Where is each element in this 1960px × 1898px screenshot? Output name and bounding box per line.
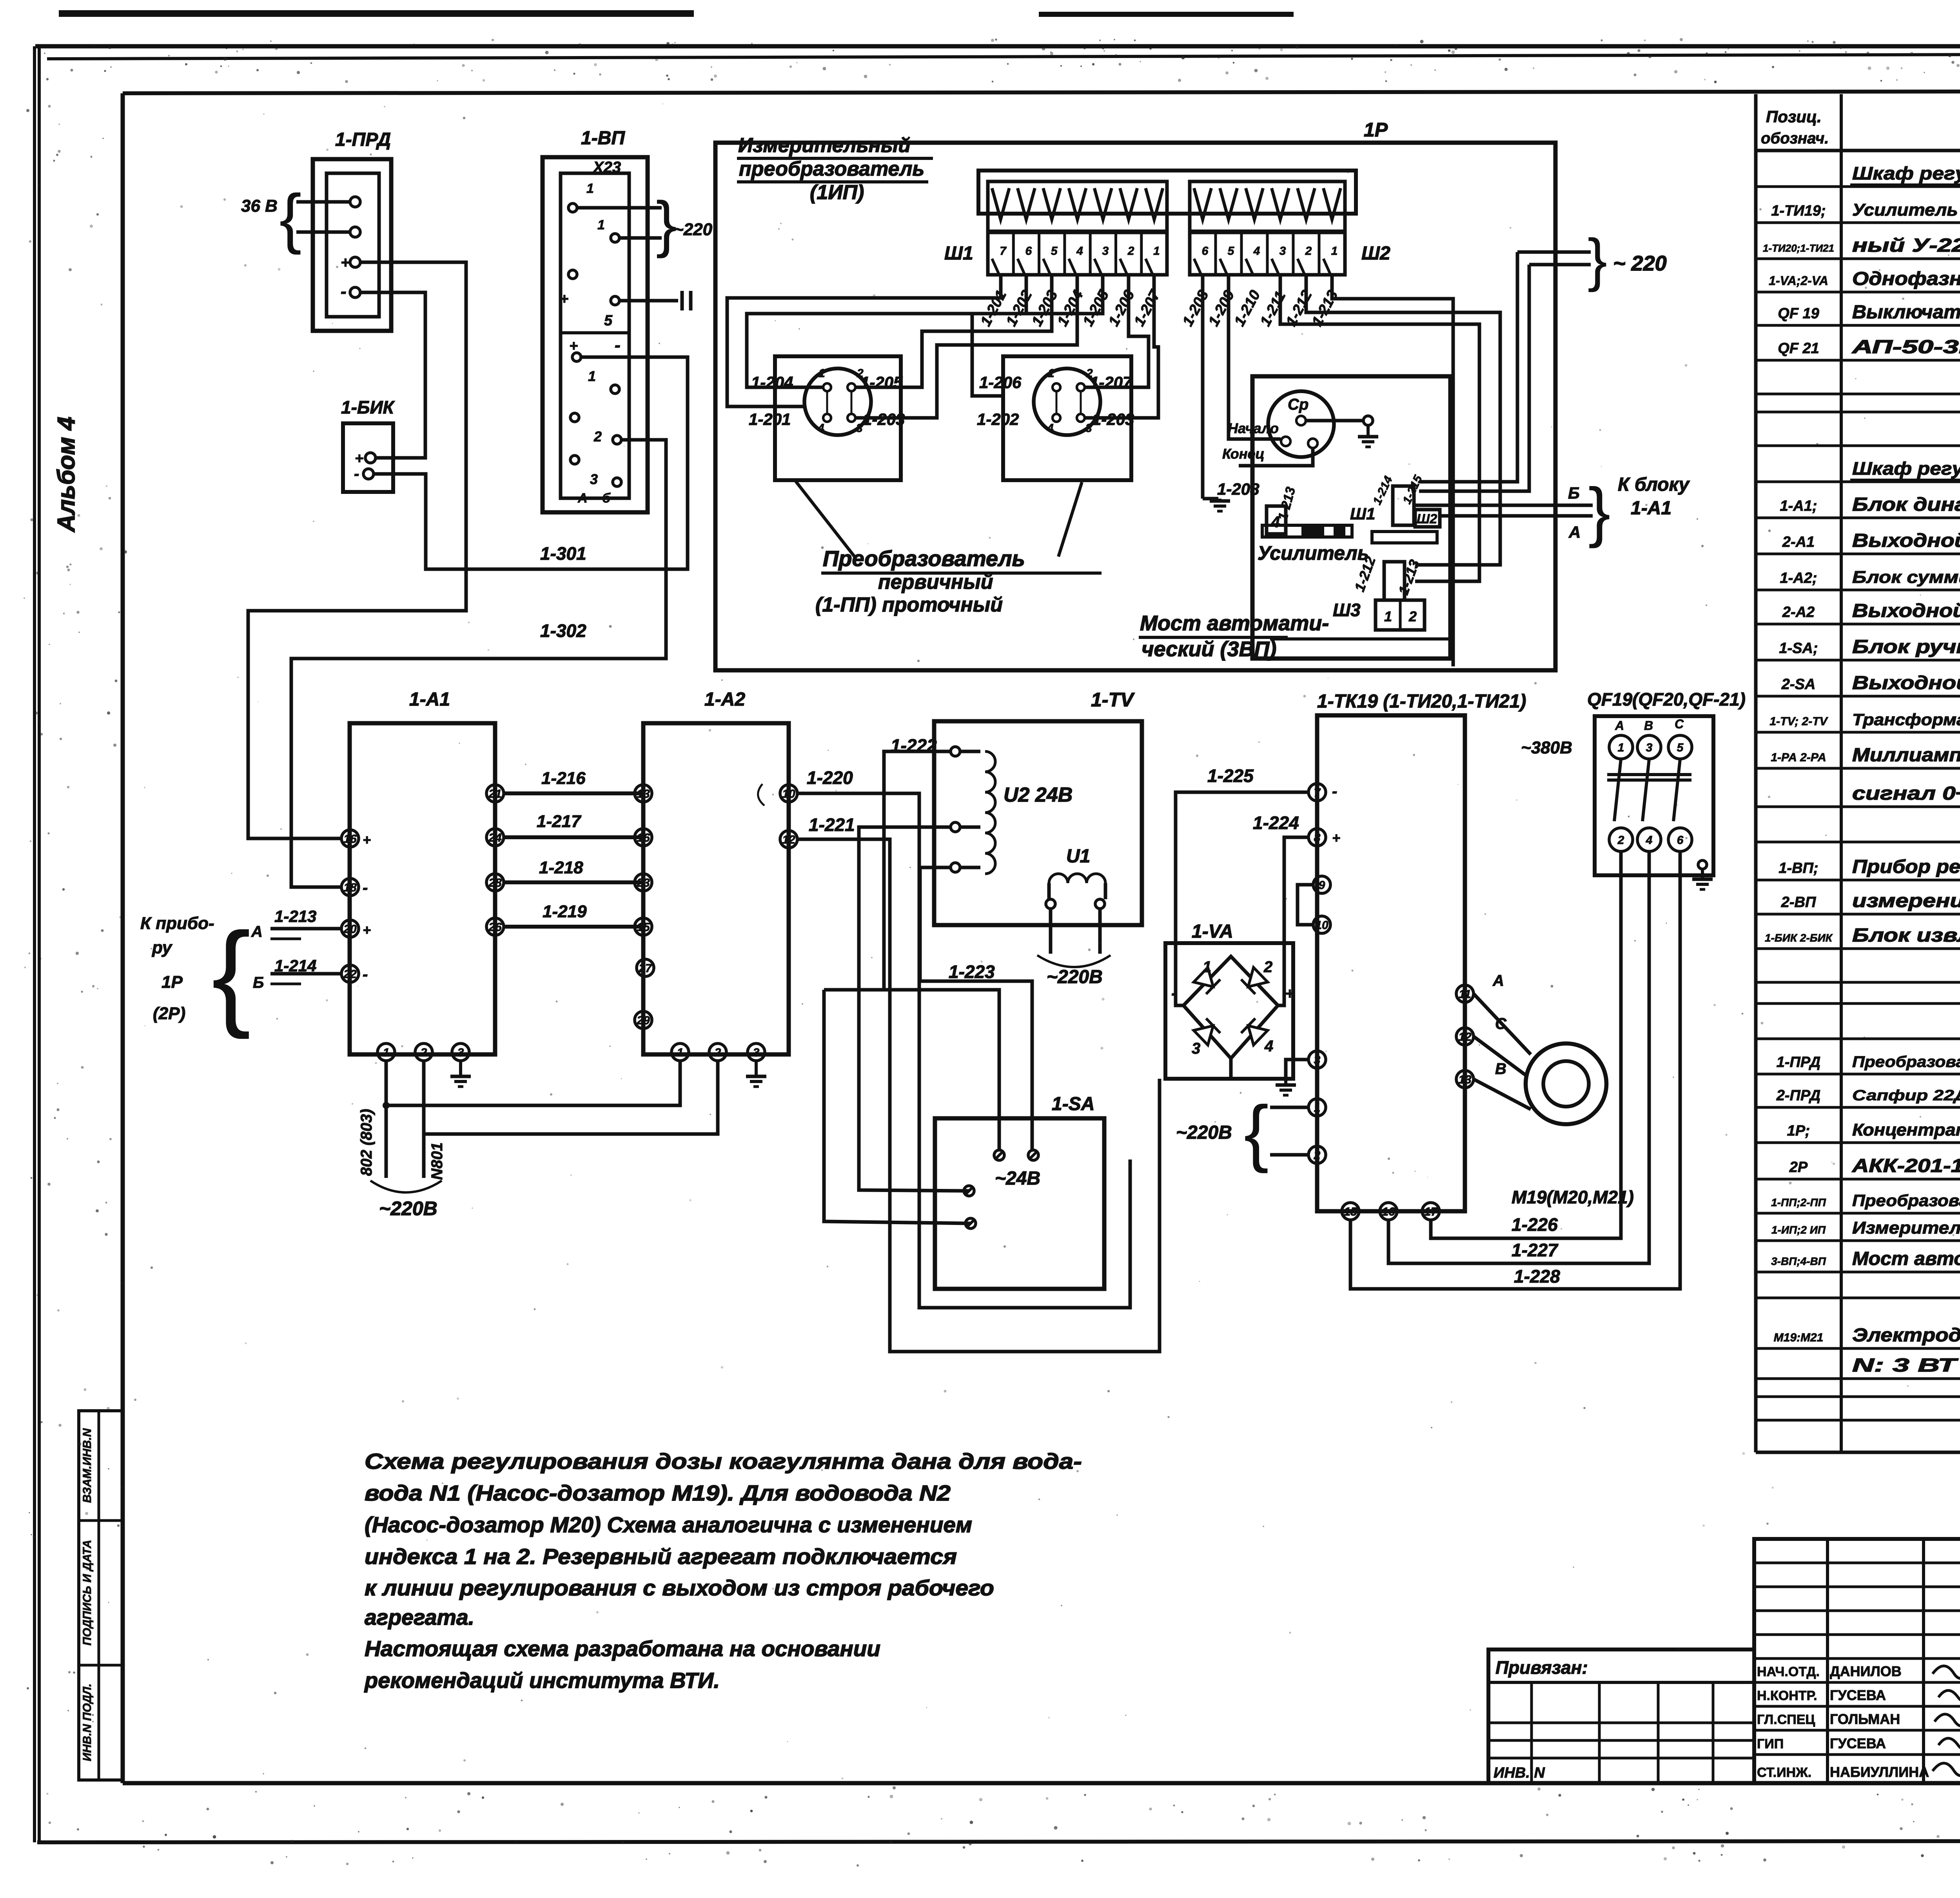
1-ТК19 terminal 3 <box>1308 1051 1326 1068</box>
amplifier box <box>1252 376 1450 659</box>
svg-text:6: 6 <box>1202 245 1209 258</box>
wire t3 to ground <box>1286 1060 1308 1081</box>
svg-text:1-А1;: 1-А1; <box>1780 498 1817 514</box>
svg-text:16: 16 <box>1382 1205 1395 1218</box>
svg-text:ВЗАМ.ИНВ.N: ВЗАМ.ИНВ.N <box>81 1428 94 1503</box>
svg-text:-: - <box>363 966 368 983</box>
svg-text:Сапфир 22ДД 2410-02-УХЛ*3.1-0,: Сапфир 22ДД 2410-02-УХЛ*3.1-0,25/0,25кПа… <box>1852 1087 1960 1104</box>
svg-text:А: А <box>577 491 588 506</box>
svg-text:С: С <box>1675 717 1684 731</box>
svg-text:Б: Б <box>253 974 264 991</box>
svg-text:1: 1 <box>597 218 605 232</box>
U2 tap 1 <box>951 747 960 756</box>
wire to motor B <box>1474 1079 1531 1109</box>
svg-text:первичный: первичный <box>878 571 993 593</box>
connector 2 pins <box>1053 383 1060 391</box>
svg-text:К прибо-: К прибо- <box>140 914 214 933</box>
block 1-ВП (recorder) <box>543 157 648 512</box>
block 1-VA (diode bridge) <box>1165 943 1293 1079</box>
svg-text:Ш1: Ш1 <box>944 243 973 264</box>
1-ВП pin g <box>570 413 579 422</box>
svg-text:Привязан:: Привязан: <box>1495 1657 1588 1678</box>
svg-text:29: 29 <box>636 1014 650 1027</box>
svg-text:1Р: 1Р <box>162 973 183 992</box>
svg-text:23: 23 <box>636 876 650 889</box>
svg-text:АКК-201-1 в комплекте.: АКК-201-1 в комплекте. <box>1852 1156 1960 1176</box>
svg-text:Блок извлечения корня БИК-1.: Блок извлечения корня БИК-1. <box>1852 925 1960 946</box>
block 1-TV (transformer) <box>934 721 1142 925</box>
svg-text:4: 4 <box>1047 422 1054 435</box>
1-ВП divider <box>561 331 629 334</box>
1-ТК19 terminal 1 <box>1308 1099 1326 1116</box>
1-А2 terminal 10 <box>780 785 797 802</box>
svg-text:1-ВП: 1-ВП <box>581 128 625 149</box>
svg-text:21: 21 <box>488 788 501 800</box>
wires Ш2 down right <box>1332 276 1453 666</box>
leader to amplifier box <box>1270 637 1450 641</box>
svg-text:индекса 1 на 2. Резервный агре: индекса 1 на 2. Резервный агрегат подклю… <box>365 1544 957 1569</box>
svg-text:QF 21: QF 21 <box>1778 340 1819 357</box>
table parts list grid <box>1754 94 1758 1452</box>
svg-text:16: 16 <box>637 831 650 844</box>
svg-text:Концентратомер кондуктометриче: Концентратомер кондуктометрический <box>1852 1120 1960 1140</box>
svg-text:1-ИП;2 ИП: 1-ИП;2 ИП <box>1771 1224 1826 1236</box>
svg-text:8: 8 <box>1314 831 1321 844</box>
svg-text:ческий (3ВП): ческий (3ВП) <box>1142 637 1276 661</box>
1-ПРД terminal - <box>350 287 360 298</box>
wires Б and А to 1-А1 <box>1413 504 1593 507</box>
svg-text:3-ВП;4-ВП: 3-ВП;4-ВП <box>1771 1255 1826 1267</box>
1-ТК19 terminal 13 <box>1456 1071 1474 1088</box>
1-ТК19 terminal 2 <box>1308 1146 1326 1163</box>
svg-text:1-227: 1-227 <box>1512 1240 1559 1260</box>
svg-text:Ср: Ср <box>1288 396 1308 413</box>
svg-text:1-216: 1-216 <box>541 769 586 788</box>
svg-text:Ш2: Ш2 <box>1361 243 1390 264</box>
U2 tap 3 <box>951 863 960 872</box>
bar under mini connectors <box>1372 532 1437 543</box>
svg-text:3: 3 <box>1314 1054 1321 1067</box>
svg-text:1-А1: 1-А1 <box>409 689 450 710</box>
svg-text:Блок суммирования и сигнализац: Блок суммирования и сигнализации БСС. <box>1852 568 1960 587</box>
svg-text:2: 2 <box>1617 834 1624 847</box>
block 1-БИК (root extraction) <box>343 423 393 492</box>
svg-text:1-ПРД: 1-ПРД <box>1777 1054 1820 1071</box>
1-SA terminal d <box>965 1218 976 1228</box>
1-ВП pin 1 with wire to ~220 <box>568 203 577 212</box>
svg-text:ГОЛЬМАН: ГОЛЬМАН <box>1830 1711 1900 1727</box>
svg-text:1-201: 1-201 <box>977 288 1010 329</box>
diode 3 <box>1194 1018 1220 1045</box>
svg-text:(1ИП): (1ИП) <box>810 181 864 204</box>
QF19 crossbar <box>1607 773 1691 776</box>
wire to 1-SA lower left <box>824 990 971 1223</box>
QF19 pole 1 <box>1609 735 1633 759</box>
svg-text:ный У-22М .: ный У-22М . <box>1852 235 1960 256</box>
1-ВП pin 1b wire to ~220 <box>611 234 619 242</box>
svg-text:{: { <box>279 181 302 255</box>
svg-text:(1-ПП) проточный: (1-ПП) проточный <box>815 593 1003 616</box>
block QF19 (circuit breaker) <box>1595 716 1713 875</box>
svg-text:16: 16 <box>343 833 357 846</box>
mini connector Ш2 <box>1415 510 1440 527</box>
svg-text:к линии регулирования с выходо: к линии регулирования с выходом из строя… <box>365 1575 994 1600</box>
svg-text:1-213: 1-213 <box>274 907 316 925</box>
svg-text:4: 4 <box>1253 245 1260 258</box>
svg-text:1-226: 1-226 <box>1512 1214 1558 1235</box>
svg-text:А: А <box>1568 523 1581 541</box>
svg-text:1-220: 1-220 <box>807 768 853 788</box>
1-А2 terminal 29 <box>635 1011 652 1029</box>
svg-text:Преобразователь измерительный: Преобразователь измерительный разности д… <box>1852 1053 1960 1071</box>
svg-text:1-ТV; 2-ТV: 1-ТV; 2-ТV <box>1769 715 1828 728</box>
svg-text:2: 2 <box>1314 1149 1321 1162</box>
block 1-А1 (dynamic link block) <box>350 723 495 1054</box>
svg-text:-: - <box>354 465 359 483</box>
wire N801 <box>422 1061 426 1178</box>
1-ПРД terminal 2 <box>350 227 360 237</box>
svg-text:802 (803): 802 (803) <box>358 1109 375 1176</box>
QF19 pole 3 <box>1637 735 1661 759</box>
diode 2 <box>1241 967 1268 994</box>
svg-text:2: 2 <box>1305 245 1312 258</box>
svg-text:2-А1: 2-А1 <box>1782 534 1815 550</box>
connector 1 circle <box>804 368 871 435</box>
block 1-SA (manual control) <box>935 1118 1104 1289</box>
svg-text:+: + <box>341 254 350 271</box>
svg-text:1-206: 1-206 <box>979 373 1022 392</box>
svg-text:3: 3 <box>856 422 863 435</box>
svg-text:3: 3 <box>1646 741 1653 754</box>
1-А2 bottom terminal 3 <box>748 1043 765 1061</box>
svg-text:2Р: 2Р <box>1789 1159 1808 1176</box>
signature squiggles <box>1933 1663 1960 1678</box>
svg-text:1: 1 <box>586 181 594 196</box>
1-А1 terminal 28 <box>486 874 504 891</box>
wire 1-ПРД+ to 1-А1 t16 <box>248 262 466 838</box>
svg-text:1-VA: 1-VA <box>1192 921 1233 942</box>
primary transducer connector 2 box <box>1003 356 1131 480</box>
svg-text:1-202: 1-202 <box>977 410 1019 428</box>
svg-text:2-SА: 2-SА <box>1781 676 1816 693</box>
svg-text:Альбом 4: Альбом 4 <box>53 417 80 533</box>
svg-text:1: 1 <box>1618 741 1624 754</box>
svg-text:2: 2 <box>593 428 602 445</box>
1-ПРД terminal + <box>350 257 360 267</box>
svg-text:1: 1 <box>1203 958 1211 976</box>
svg-text:1-207: 1-207 <box>1131 287 1164 329</box>
1-А2 terminal 23 <box>635 874 652 891</box>
svg-text:+: + <box>363 832 371 848</box>
1-ТК19 terminal 10 <box>1313 916 1330 933</box>
1-А1 terminal 22 <box>341 965 359 982</box>
svg-text:Выходной сигнал 0-5МА ~220В.: Выходной сигнал 0-5МА ~220В. <box>1852 601 1960 621</box>
svg-text:2: 2 <box>1127 245 1134 258</box>
svg-text:Мост автоматический: Мост автоматический <box>1852 1248 1960 1269</box>
svg-text:17: 17 <box>1424 1205 1438 1218</box>
svg-text:+: + <box>355 450 363 467</box>
svg-text:2: 2 <box>420 1046 427 1059</box>
1-ТК19 terminal 7 <box>1308 784 1326 801</box>
svg-text:QF 19: QF 19 <box>1778 305 1819 322</box>
1-А1 bottom terminal 3 <box>452 1043 469 1061</box>
wire 1-301 <box>374 357 688 569</box>
svg-text:1Р: 1Р <box>1364 119 1388 141</box>
1-SA terminal b <box>1028 1150 1038 1160</box>
svg-text:1: 1 <box>1314 1101 1321 1114</box>
1-ВП pin e (to wire 1-301) <box>572 353 581 361</box>
svg-text:ГЛ.СПЕЦ: ГЛ.СПЕЦ <box>1757 1712 1815 1727</box>
svg-text:В: В <box>1644 719 1653 733</box>
svg-text:Блок динамической связи БДС .: Блок динамической связи БДС . <box>1852 494 1960 515</box>
svg-text:С: С <box>1495 1015 1507 1032</box>
1-А2 terminal 27 <box>637 959 654 976</box>
svg-text:Выходной сигнал 0-5 МА. ~220В: Выходной сигнал 0-5 МА. ~220В <box>1852 530 1960 551</box>
svg-text:~380В: ~380В <box>1521 738 1572 757</box>
svg-text:1-БИК: 1-БИК <box>341 397 395 417</box>
1-БИК terminal + <box>365 453 376 463</box>
QF19 switch blades <box>1614 759 1621 821</box>
block 1-ПРД (pressure transducer) <box>313 159 391 331</box>
svg-text:Усилитель: Усилитель <box>1258 542 1369 564</box>
svg-text:1-РА 2-РА: 1-РА 2-РА <box>1771 751 1826 764</box>
wire bundle Ш1 to connector 1 <box>727 276 1001 406</box>
svg-text:ру: ру <box>152 938 173 957</box>
svg-text:В: В <box>1495 1060 1506 1078</box>
svg-text:ГУСЕВА: ГУСЕВА <box>1830 1687 1886 1703</box>
svg-text:ИНВ.N ПОДЛ.: ИНВ.N ПОДЛ. <box>81 1684 94 1761</box>
svg-text:1-302: 1-302 <box>540 621 586 641</box>
left margin stamp strip <box>79 1411 123 1780</box>
svg-text:{: { <box>212 908 251 1040</box>
connector 2 circle <box>1034 368 1100 435</box>
1-А1 terminal 24 <box>486 829 504 846</box>
svg-text:Конец: Конец <box>1222 446 1265 462</box>
svg-text:11: 11 <box>1459 988 1471 1001</box>
mini connector Ш3 <box>1376 600 1425 630</box>
svg-text:1-TV: 1-TV <box>1091 689 1135 711</box>
svg-text:3: 3 <box>1102 245 1109 258</box>
svg-text:12: 12 <box>782 833 795 846</box>
svg-text:15: 15 <box>1344 1205 1357 1218</box>
Ср pins <box>1296 416 1306 425</box>
svg-text:Трансформатор однофазный ОСМ 1: Трансформатор однофазный ОСМ 1-0,1 <box>1852 710 1960 729</box>
1-ТК19 terminal 12 <box>1456 1028 1474 1045</box>
wire 1-ПРД- to 1-БИК+ <box>360 292 425 458</box>
svg-text:(2Р): (2Р) <box>153 1004 185 1023</box>
svg-text:+: + <box>363 922 371 938</box>
1-А2 bottom terminal 2 <box>709 1043 726 1061</box>
svg-text:3: 3 <box>590 471 598 487</box>
1-ТК19 terminal 17 <box>1422 1203 1439 1220</box>
svg-text:1: 1 <box>588 368 596 384</box>
svg-text:1-221: 1-221 <box>809 815 855 835</box>
svg-text:+: + <box>1332 830 1340 846</box>
svg-text:сигнал 0÷5МА.: сигнал 0÷5МА. <box>1852 783 1960 804</box>
svg-text:1-203: 1-203 <box>1029 288 1061 329</box>
svg-text:~220В: ~220В <box>1047 967 1103 987</box>
svg-text:}: } <box>1588 474 1611 549</box>
svg-text:3: 3 <box>1085 422 1092 435</box>
svg-text:Выходной сигнал 0-5МА.: Выходной сигнал 0-5МА. <box>1852 673 1960 693</box>
svg-text:Преобразователь первичный прот: Преобразователь первичный проточный <box>1852 1191 1960 1210</box>
svg-text:1-225: 1-225 <box>1207 766 1254 786</box>
stamp Привязан box <box>1488 1649 1754 1783</box>
~220В supply to t1 t2 <box>1270 1106 1308 1109</box>
1-ТК19 terminal 11 <box>1456 985 1474 1002</box>
svg-text:{: { <box>1244 1091 1269 1174</box>
svg-text:А: А <box>251 923 263 940</box>
svg-text:1-201: 1-201 <box>749 410 791 428</box>
svg-text:+: + <box>1285 985 1294 1002</box>
svg-text:1: 1 <box>1048 367 1054 380</box>
svg-text:4: 4 <box>1264 1038 1273 1055</box>
ground near bridge <box>1284 1081 1287 1085</box>
svg-text:1-202: 1-202 <box>1003 288 1036 329</box>
svg-text:1-SA: 1-SA <box>1052 1094 1094 1114</box>
svg-text:-: - <box>615 336 621 355</box>
svg-text:Ш3: Ш3 <box>1333 600 1361 620</box>
svg-text:Н.КОНТР.: Н.КОНТР. <box>1757 1688 1817 1703</box>
1-ВП pin i <box>570 455 579 464</box>
svg-text:13: 13 <box>637 788 650 800</box>
svg-text:ДАНИЛОВ: ДАНИЛОВ <box>1830 1663 1902 1679</box>
svg-text:QF19(QF20,QF-21): QF19(QF20,QF-21) <box>1587 689 1746 709</box>
QF19 ground <box>1698 860 1707 869</box>
svg-text:1-223: 1-223 <box>949 962 995 982</box>
svg-text:ИНВ. N: ИНВ. N <box>1494 1765 1545 1781</box>
stamp signature grid <box>1754 1539 1960 1783</box>
svg-text:А: А <box>1492 972 1504 989</box>
bridge diamond <box>1183 956 1278 1058</box>
svg-text:1-224: 1-224 <box>1253 813 1299 833</box>
wire to motor C <box>1474 1036 1527 1076</box>
svg-text:измерения 0-5МА. РП-160-09.: измерения 0-5МА. РП-160-09. <box>1852 891 1960 911</box>
wire to Ср bottom pin <box>1239 448 1313 466</box>
1-А1 terminal 16 <box>341 830 359 847</box>
svg-text:1: 1 <box>818 367 825 380</box>
svg-text:1-ПП;2-ПП: 1-ПП;2-ПП <box>1771 1196 1826 1208</box>
svg-text:5: 5 <box>1228 245 1235 258</box>
svg-text:26: 26 <box>488 921 502 934</box>
wires ~220 stubs down <box>1419 252 1517 482</box>
page top second line <box>47 53 1960 59</box>
svg-text:Измерительн.преобразователь: Измерительн.преобразователь <box>1852 1218 1960 1238</box>
bar under Ср <box>1262 525 1352 537</box>
connector cells Ш2 <box>1190 232 1345 275</box>
1-А2 terminal 16 <box>635 829 652 846</box>
svg-text:18: 18 <box>343 881 357 894</box>
primary transducer connector 1 box <box>775 356 901 480</box>
connector Ср circle <box>1268 391 1334 457</box>
svg-text:А: А <box>1615 719 1624 733</box>
left outer double border <box>33 46 36 1842</box>
svg-text:НАЧ.ОТД.: НАЧ.ОТД. <box>1757 1664 1820 1679</box>
svg-text:3: 3 <box>457 1046 464 1059</box>
strip V-block Ш2 <box>1190 181 1345 231</box>
1-А2 terminal 15 <box>635 918 652 935</box>
svg-text:1-301: 1-301 <box>540 543 586 564</box>
svg-text:3: 3 <box>1279 245 1286 258</box>
1-ТК19 terminal 16 <box>1380 1203 1397 1220</box>
svg-text:2: 2 <box>1263 958 1272 976</box>
block 1Р (conductometric concentrator) <box>715 143 1555 670</box>
wire 36V pair <box>296 200 350 204</box>
svg-text:Измерительный: Измерительный <box>738 134 911 157</box>
svg-text:12: 12 <box>1458 1031 1472 1043</box>
svg-text:2: 2 <box>1408 608 1417 624</box>
svg-text:1-228: 1-228 <box>1514 1266 1560 1287</box>
svg-text:~24В: ~24В <box>995 1168 1040 1189</box>
svg-text:АП-50-3МТ Iрк= 6,4А; ~380: АП-50-3МТ Iрк= 6,4А; ~380 В. <box>1851 337 1960 357</box>
1-БИК terminal - <box>363 469 374 479</box>
1-ТК19 terminal 15 <box>1342 1203 1359 1220</box>
connector cells Ш1 <box>988 232 1167 275</box>
svg-text:20: 20 <box>343 923 357 936</box>
1-ВП pin c <box>568 270 577 279</box>
jumper 9-10 <box>1298 885 1313 925</box>
1-А1 terminal 21 <box>486 785 504 802</box>
connector strip housing <box>978 171 1356 214</box>
svg-text:10: 10 <box>782 788 795 800</box>
svg-text:преобразователь: преобразователь <box>739 158 924 180</box>
svg-text:22: 22 <box>343 968 357 981</box>
svg-text:9: 9 <box>1319 879 1325 892</box>
svg-text:1-БИК 2-БИК: 1-БИК 2-БИК <box>1765 932 1833 944</box>
block 1-ТК19 (thyristor amplifier) <box>1317 715 1465 1211</box>
svg-text:7: 7 <box>1000 245 1007 258</box>
svg-text:обознач.: обознач. <box>1761 130 1829 147</box>
svg-text:1-213: 1-213 <box>1275 485 1298 522</box>
wire to motor A <box>1474 994 1531 1054</box>
svg-text:1-А2;: 1-А2; <box>1780 570 1817 586</box>
svg-text:НАБИУЛЛИНА: НАБИУЛЛИНА <box>1830 1764 1929 1780</box>
svg-text:1-ТИ19;: 1-ТИ19; <box>1771 203 1826 219</box>
small box above Ш3 <box>1384 562 1405 600</box>
svg-text:13: 13 <box>1458 1073 1472 1086</box>
svg-text:К блоку: К блоку <box>1618 474 1690 495</box>
ground under 1-А2 t3 <box>755 1061 758 1076</box>
svg-text:1-209: 1-209 <box>1205 288 1238 329</box>
U1 terminals <box>1046 899 1055 909</box>
motor М19 <box>1526 1043 1606 1124</box>
block 1-А2 (summing block) <box>643 723 789 1054</box>
page top border (broken scan line) <box>35 44 1960 49</box>
QF19 pole 4 <box>1637 828 1661 851</box>
svg-text:1-ПРД: 1-ПРД <box>335 129 391 150</box>
leader lines <box>796 481 855 557</box>
QF19 pole 5 <box>1668 735 1692 759</box>
svg-text:N: 3 ВТ ~380В.: N: 3 ВТ ~380В. <box>1852 1355 1960 1376</box>
table row lines <box>1756 185 1960 188</box>
bottom page border <box>37 1841 1960 1842</box>
1-А1 terminal 20 <box>341 920 359 937</box>
svg-text:1-219: 1-219 <box>543 902 587 921</box>
svg-text:Усилитель тиристорный трехпози: Усилитель тиристорный трехпозицион- <box>1852 200 1960 220</box>
svg-text:Электродвигатель 4А100S4: Электродвигатель 4А100S4 <box>1852 1325 1960 1346</box>
contact V symbols <box>992 188 1009 220</box>
brace ~220В under U1 <box>1037 955 1111 967</box>
strip V-block Ш1 <box>988 181 1167 231</box>
svg-text:Выключатель автоматический: Выключатель автоматический <box>1852 302 1960 323</box>
svg-text:N801: N801 <box>428 1142 446 1180</box>
1-ТК19 terminal 8 <box>1308 829 1326 846</box>
svg-text:Шкаф регулирования коагулянта: Шкаф регулирования коагулянта N2 <box>1852 458 1960 479</box>
svg-text:Мост автомати-: Мост автомати- <box>1140 611 1329 635</box>
svg-text:4: 4 <box>817 422 824 435</box>
svg-text:ГИП: ГИП <box>1757 1737 1784 1751</box>
Ср ground stub <box>1306 419 1363 423</box>
